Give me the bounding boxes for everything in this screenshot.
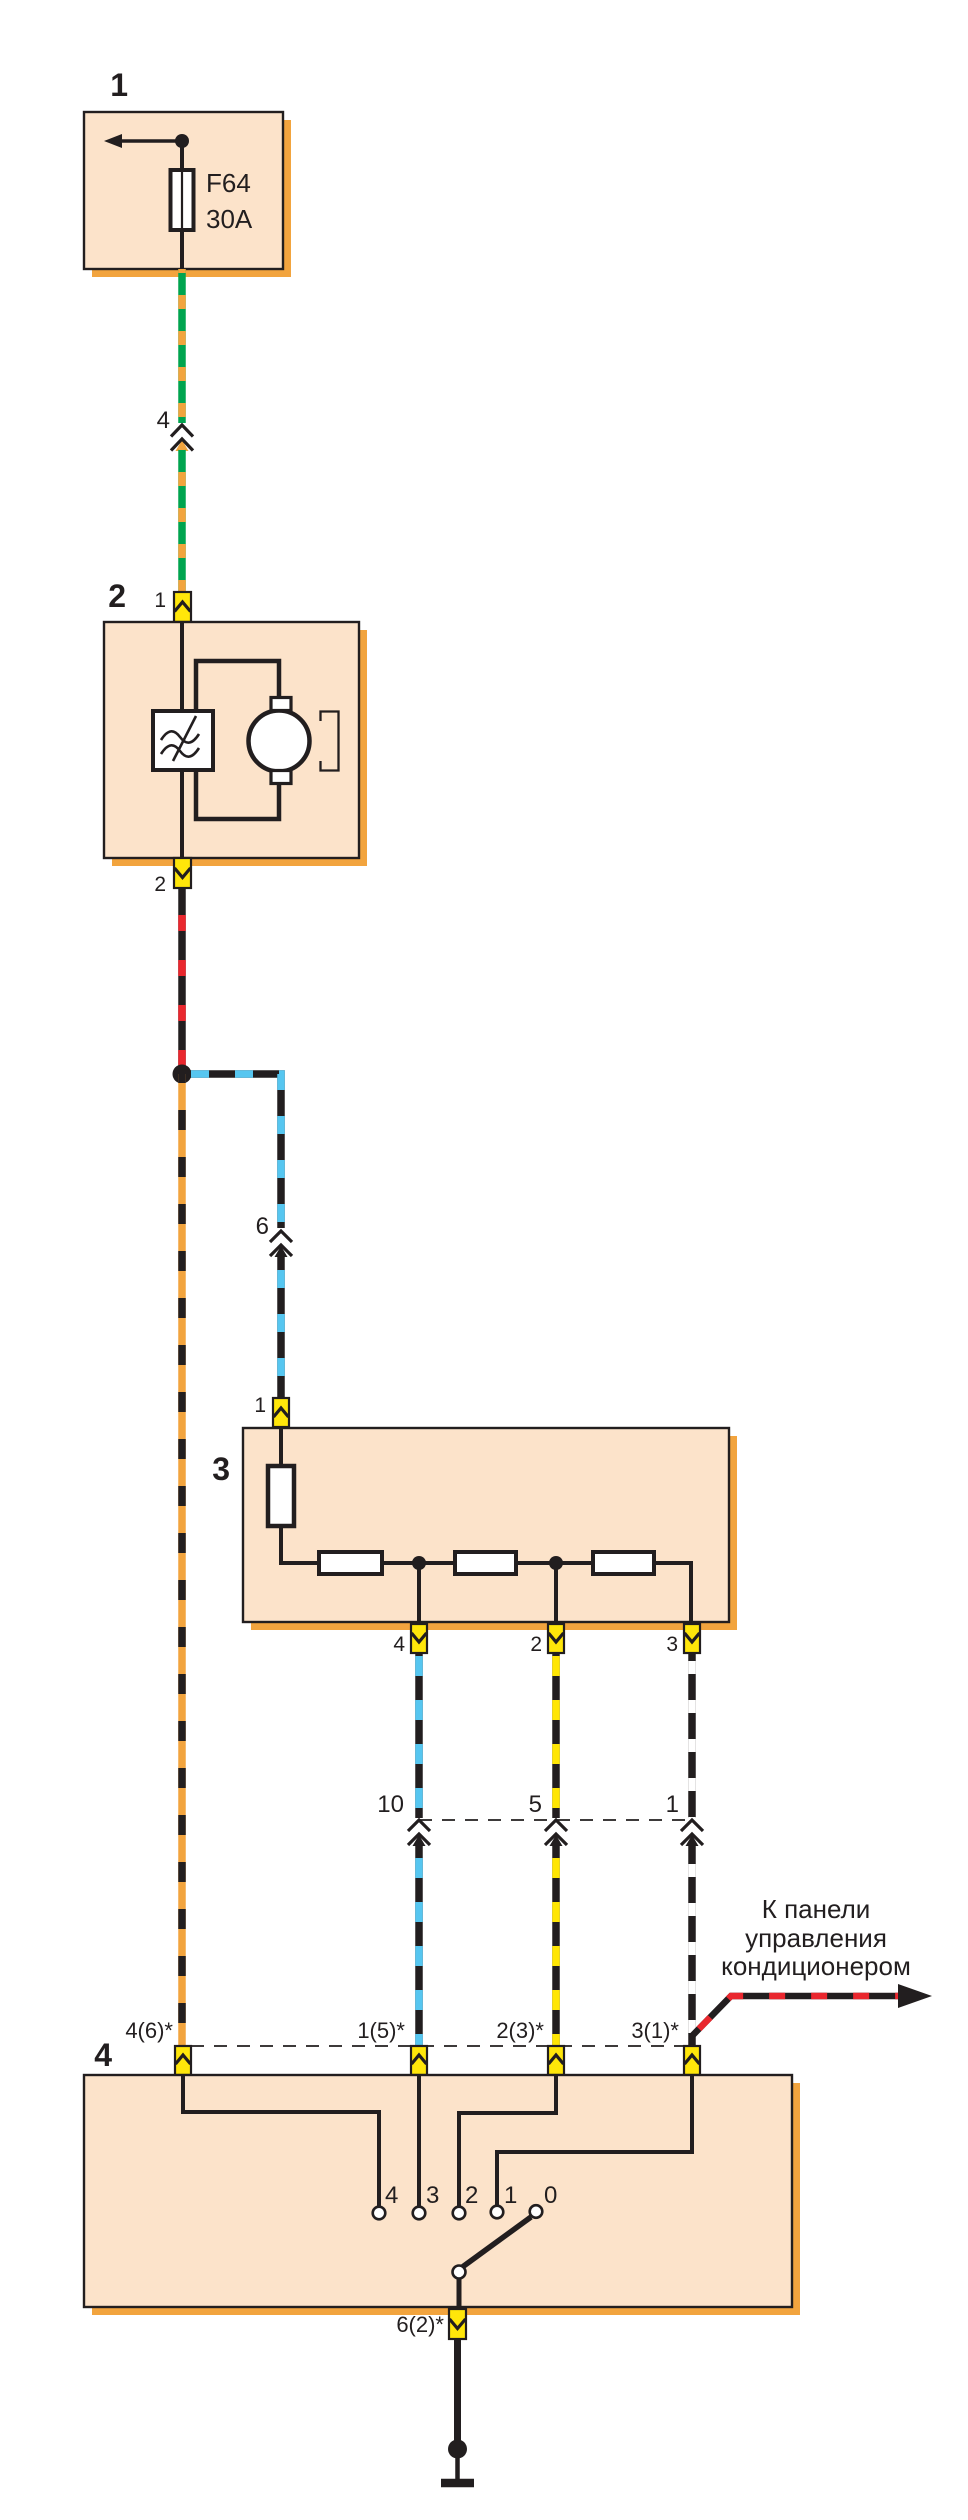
svg-text:1: 1 <box>154 589 166 612</box>
interference suppression filter <box>153 711 213 770</box>
svg-text:F64: F64 <box>206 168 251 198</box>
pin 2(3)* of switch connector <box>548 2046 564 2075</box>
svg-text:2: 2 <box>108 578 126 614</box>
svg-text:К панели: К панели <box>762 1894 871 1924</box>
svg-text:2(3)*: 2(3)* <box>496 2018 544 2043</box>
component 3: blower resistor body <box>243 1428 729 1622</box>
value label F64 30A <box>206 168 253 234</box>
component 4: blower switch body <box>84 2075 792 2307</box>
connector passage mark on wire 10 <box>408 1820 430 1845</box>
dashed connector line between wires 10-5-1 <box>419 1819 692 1821</box>
wire 6: black/lightblue branch to resistor pin 1 (upper segment) <box>182 1074 281 1228</box>
motor stator bracket <box>321 712 339 771</box>
wire 10: lower segment <box>413 1835 426 2046</box>
svg-text:управления: управления <box>745 1923 887 1953</box>
svg-text:6(2)*: 6(2)* <box>396 2312 444 2337</box>
wire: pivot to pin 6(2)* <box>457 2279 462 2308</box>
pin 1 of resistor block connector <box>273 1398 289 1427</box>
ground <box>441 2449 474 2483</box>
pin 2 of blower motor connector <box>174 858 191 888</box>
wire: resistor block internal <box>281 1427 691 1624</box>
node: junction dot in box 1 <box>175 134 189 148</box>
wire 4: green/orange from fuse box to motor pin 1 (upper segment) <box>178 269 186 423</box>
motor brush top <box>271 698 291 711</box>
wire 5: lower segment <box>550 1835 563 2046</box>
wire: black/red from motor pin 2 to junction <box>178 888 186 1074</box>
switch contact 1 <box>491 2206 504 2219</box>
node: wire junction <box>173 1065 192 1084</box>
switch contact 4 <box>373 2207 386 2220</box>
wire: switch internal from pin 2(3)* to contact 2 <box>459 2075 556 2207</box>
svg-text:4: 4 <box>94 2037 112 2073</box>
connector passage mark on wire 1 <box>681 1820 703 1845</box>
svg-text:4(6)*: 4(6)* <box>125 2018 173 2043</box>
wire: motor internal loop <box>196 661 279 819</box>
svg-text:4: 4 <box>157 407 170 434</box>
wire 1: black/white from resistor pin 3 (upper) <box>688 1653 696 1818</box>
text: to A/C control panel <box>721 1894 911 1981</box>
wire: motor internal vertical <box>180 622 184 858</box>
fuse F64 30A <box>171 170 194 230</box>
pin 4(6)* of switch connector <box>175 2046 191 2075</box>
wire: ground wire from pin 6(2)* <box>454 2339 461 2442</box>
switch pivot contact <box>453 2266 466 2279</box>
pin 1(5)* of switch connector <box>411 2046 427 2075</box>
switch contact 2 <box>453 2207 466 2220</box>
svg-text:3(1)*: 3(1)* <box>631 2018 679 2043</box>
wire 1: lower segment <box>686 1835 699 2046</box>
svg-text:1: 1 <box>504 2182 517 2209</box>
component 1: mounting block (fuse box) shadow <box>92 120 291 277</box>
connector passage mark on wire 6 <box>270 1231 292 1256</box>
component 2: blower motor shadow <box>112 630 367 866</box>
node: ground splice dot <box>448 2440 467 2459</box>
svg-text:3: 3 <box>212 1451 230 1487</box>
svg-text:кондиционером: кондиционером <box>721 1951 911 1981</box>
wire: tap A down to pin 4 <box>417 1563 421 1624</box>
wire: feed arrow to battery inside box 1 <box>104 134 182 148</box>
thermal fuse (vertical element) <box>268 1466 294 1526</box>
node: resistor tap junction A <box>412 1556 426 1570</box>
svg-text:3: 3 <box>666 1633 678 1656</box>
motor M: armature circle <box>249 711 310 772</box>
svg-text:0: 0 <box>544 2182 557 2209</box>
svg-text:5: 5 <box>529 1791 542 1818</box>
connector passage mark on wire 4 <box>171 425 193 451</box>
svg-text:1: 1 <box>666 1791 679 1818</box>
svg-text:3: 3 <box>426 2182 439 2209</box>
svg-text:1: 1 <box>254 1394 266 1417</box>
resistor element 2 <box>455 1552 516 1574</box>
resistor element 3 <box>593 1552 654 1574</box>
resistor element 1 <box>319 1552 382 1574</box>
svg-text:1: 1 <box>110 67 128 103</box>
pin 3 of resistor block connector <box>684 1624 700 1653</box>
svg-text:4: 4 <box>385 2182 398 2209</box>
component 3: blower resistor shadow <box>251 1436 737 1630</box>
pin 2 of resistor block connector <box>548 1624 564 1653</box>
wire: tap B down to pin 2 <box>554 1563 558 1624</box>
pin 1 of blower motor connector <box>174 592 191 622</box>
connector passage mark on wire 5 <box>545 1820 567 1845</box>
switch contact 3 <box>413 2207 426 2220</box>
pin 6(2)* of switch connector <box>449 2309 466 2339</box>
switch lever <box>461 2217 531 2268</box>
wire 6: lower segment <box>275 1246 288 1398</box>
svg-text:10: 10 <box>377 1791 404 1818</box>
svg-text:30A: 30A <box>206 204 253 234</box>
dashed connector line of switch plug <box>191 2045 684 2047</box>
wire 4: green/orange lower segment <box>176 440 189 592</box>
wire: black/red branch to A/C control panel with arrow <box>692 1984 932 2036</box>
svg-text:4: 4 <box>393 1633 405 1656</box>
pin 3(1)* of switch connector <box>684 2046 700 2075</box>
component 2: blower motor body <box>104 622 359 858</box>
svg-text:6: 6 <box>256 1213 269 1240</box>
wire: switch internal from pin 4(6)* to contact 4 <box>183 2075 379 2207</box>
svg-text:2: 2 <box>154 873 166 896</box>
switch contact 0 <box>530 2205 543 2218</box>
wire: switch internal from pin 1(5)* to contact 3 <box>417 2075 421 2207</box>
wire: box 1 internal vertical <box>180 141 184 269</box>
wire: switch internal from pin 3(1)* to contact 1 <box>497 2075 692 2206</box>
wire 10: black/lightblue from resistor pin 4 (upper) <box>415 1653 423 1818</box>
svg-text:2: 2 <box>465 2182 478 2209</box>
svg-text:1(5)*: 1(5)* <box>357 2018 405 2043</box>
pin 4 of resistor block connector <box>411 1624 427 1653</box>
wire 5: black/yellow from resistor pin 2 (upper) <box>552 1653 560 1818</box>
motor brush bottom <box>271 771 291 784</box>
component 1: mounting block (fuse box) body <box>84 112 283 269</box>
node: resistor tap junction B <box>549 1556 563 1570</box>
wire: orange/black long wire from junction to switch pin 4(6)* (upper) <box>178 1074 186 2046</box>
component 4: blower switch shadow <box>92 2083 800 2315</box>
svg-text:2: 2 <box>530 1633 542 1656</box>
